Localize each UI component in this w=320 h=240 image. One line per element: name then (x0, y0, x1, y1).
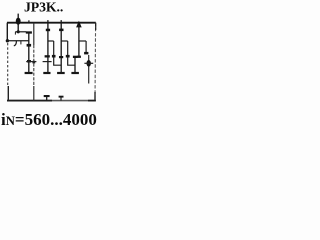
wire: nub above rail at leg 1 (28, 20, 30, 22)
terminal foot of leg 1 (25, 72, 33, 74)
contact blob on leg 2 (32, 61, 35, 64)
wire: branch B horizontal (61, 40, 67, 42)
contact blob on leg 1 (27, 44, 32, 47)
contact blob on branch A (52, 55, 56, 58)
crossbar tap on leg 1 (26, 61, 36, 63)
tap arrow 2 head at rail (76, 21, 82, 28)
terminal foot of leg 3 (43, 72, 50, 74)
contact blob on leg 5 (73, 56, 78, 58)
contact hook on wire (14, 41, 17, 46)
wire: small tick at stub end (14, 32, 16, 35)
terminal post 2 cap (59, 96, 64, 98)
terminal foot of leg 4 (57, 72, 65, 74)
node: junction dot under arrow 1 (17, 30, 20, 33)
contact bar cap (26, 31, 32, 33)
terminal foot of leg 5 (71, 72, 79, 74)
tap arrow 1 stem (17, 14, 19, 32)
tap arrow 3 diamond head (86, 60, 91, 67)
contact blob on branch B (66, 55, 70, 58)
wire: branch B vertical (67, 41, 69, 55)
svg-text:JP3K..: JP3K.. (24, 0, 63, 15)
winding leg 5 stem (74, 57, 76, 73)
winding leg 4 nub (60, 20, 62, 23)
wire: branch A lower link (54, 58, 62, 66)
wire: stub left of junction (15, 31, 26, 33)
terminal post 1 on bottom rail stem (46, 96, 48, 101)
wire: right border dark top (95, 23, 97, 30)
contact blob lower on leg 3 (45, 55, 50, 57)
wire: horizontal wire from left border (7, 40, 29, 42)
node: junction dot on left border (6, 39, 9, 42)
winding leg 4 stem (60, 23, 62, 73)
winding leg 2 stem (full height) (33, 23, 35, 45)
winding leg 3 nub (47, 20, 49, 23)
contact blob upper on leg 4 (59, 29, 63, 32)
contact blob upper on leg 3 (46, 29, 50, 32)
terminal post 1 cap (44, 95, 50, 97)
wire: branch A vertical (53, 41, 55, 55)
wire: bottom rail dark right corner (88, 100, 96, 102)
contact blob on branch C (84, 52, 88, 55)
wire: branch B lower link (68, 58, 75, 66)
crossbar tap at arrow 3 (84, 62, 93, 64)
crossbar tap on leg 3 (43, 61, 52, 63)
tap arrow 1 diamond head (16, 18, 21, 25)
wire: top supply rail (7, 22, 96, 24)
wire: left border upper segment (6, 23, 8, 41)
wire: bottom rail dark left part (7, 100, 52, 102)
terminal post 2 on bottom rail stem (60, 97, 62, 101)
wire: branch C vertical (85, 41, 87, 52)
contact blob lower on leg 1 (27, 60, 31, 63)
wire: right border (94, 23, 97, 101)
tap arrow 3 stem (88, 55, 90, 84)
contact blob under arrow 2 (77, 56, 81, 58)
contact blob lower on leg 4 (59, 56, 63, 58)
winding leg 3 stem (47, 23, 49, 73)
svg-text:iN=560...4000: iN=560...4000 (1, 110, 97, 129)
wire: branch A horizontal (48, 40, 54, 42)
wire: right border dark bottom (94, 92, 96, 101)
wire: small tick below wire (20, 41, 22, 45)
winding leg 1 stem (28, 33, 30, 73)
wire: left border lower segment (7, 86, 9, 101)
wire: bottom rail (7, 100, 96, 102)
wire: branch C horizontal (79, 40, 86, 42)
tap arrow 2 stem (78, 25, 80, 57)
wire: left border dashed middle segment (7, 43, 9, 87)
